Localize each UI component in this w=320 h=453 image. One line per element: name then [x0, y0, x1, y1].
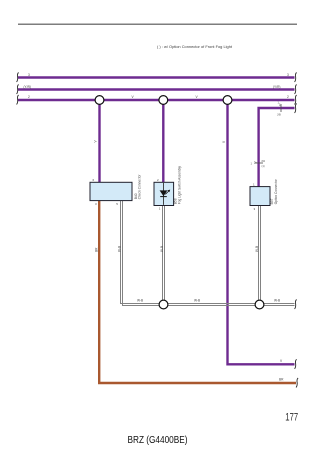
svg-text:( ) : w/ Option Connector of F: ( ) : w/ Option Connector of Front Fog L… [157, 45, 233, 49]
continuation break left of bus 3 [17, 95, 19, 105]
continuation break right of bus 4 [295, 104, 297, 114]
svg-text:Fog Light Switch Assembly: Fog Light Switch Assembly [177, 166, 181, 204]
svg-text:i84: i84 [262, 159, 266, 163]
svg-text:Check Connector: Check Connector [138, 174, 142, 200]
wire: violet long drop with bottom run (to right edge) [228, 104, 295, 364]
svg-text:3: 3 [254, 207, 256, 211]
arrow indicator of diode [165, 191, 169, 194]
wire: white W-B from B40 pin5 down and across to right [121, 201, 295, 304]
svg-text:BR: BR [94, 247, 98, 252]
switch B58 box [154, 182, 174, 205]
junction node on bus 3 at long drop [223, 96, 232, 105]
internal lead through B58 [163, 183, 165, 205]
continuation break right of brown run [296, 378, 298, 388]
option connector box [250, 187, 270, 206]
svg-text:2: 2 [157, 178, 159, 182]
junction node on ground bus at B58 drop [159, 300, 168, 309]
wire: bus 2 horizontal (violet) [18, 88, 295, 90]
svg-text:Option Connector: Option Connector [274, 178, 278, 204]
svg-text:W-B: W-B [160, 246, 164, 252]
svg-text:(Y/R): (Y/R) [273, 85, 280, 89]
wire: violet drop to connector B40 [98, 104, 100, 182]
svg-text:W-B: W-B [194, 299, 200, 303]
svg-text:5: 5 [116, 202, 118, 206]
continuation break right of bus 3 [295, 95, 297, 105]
header rule [18, 23, 297, 25]
wire: white W-B drop from B58 [162, 206, 164, 305]
continuation break right of bus 1 [295, 73, 297, 83]
svg-text:W-B: W-B [255, 246, 259, 252]
svg-text:BR: BR [279, 378, 284, 382]
svg-text:3: 3 [28, 73, 30, 77]
svg-text:1: 1 [253, 183, 255, 187]
wire: bus 4 stub horizontal (violet) with corner down [259, 108, 295, 187]
wire: violet drop to switch B58 [162, 104, 164, 182]
svg-text:(Y/R): (Y/R) [24, 85, 31, 89]
continuation break right of bus 2 [295, 85, 297, 95]
continuation break right of bottom violet run [295, 359, 297, 369]
svg-text:V: V [94, 140, 98, 143]
svg-text:V: V [132, 95, 135, 99]
wire: bus 1 horizontal (violet) [18, 76, 295, 78]
svg-text:1: 1 [159, 207, 161, 211]
diode D inside B58 [160, 190, 168, 196]
svg-text:6: 6 [93, 178, 95, 182]
svg-text:V: V [222, 140, 226, 143]
svg-text:177: 177 [285, 412, 298, 424]
svg-text:2: 2 [28, 95, 30, 99]
continuation break left of bus 1 [17, 73, 19, 83]
continuation break left of bus 2 [17, 85, 19, 95]
junction node on ground bus at option drop [255, 300, 264, 309]
svg-text:3: 3 [287, 73, 289, 77]
wire: brown B40 to bottom right edge [99, 201, 296, 383]
svg-text:W-B: W-B [274, 299, 280, 303]
inline connector marker on bus 4 [280, 104, 282, 112]
svg-text:J/B: J/B [277, 113, 281, 117]
svg-text:2: 2 [287, 95, 289, 99]
svg-text:V: V [280, 359, 283, 363]
svg-text:1: 1 [251, 161, 253, 165]
junction node on bus 3 at B58 drop [159, 96, 168, 105]
connector B40 box [90, 182, 132, 200]
junction node on bus 3 at B40 drop [95, 96, 104, 105]
wire: white W-B drop from option connector [258, 206, 260, 305]
continuation break right of ground bus [295, 300, 297, 310]
wire: bus 3 horizontal (violet) [18, 99, 295, 101]
svg-text:3: 3 [95, 202, 97, 206]
svg-text:W-B: W-B [137, 299, 143, 303]
svg-text:V: V [196, 95, 199, 99]
svg-text:W-B: W-B [118, 246, 122, 252]
svg-text:(1): (1) [262, 164, 265, 168]
inline connector marker on option drop [255, 162, 264, 164]
svg-text:BRZ (G4400BE): BRZ (G4400BE) [128, 435, 188, 446]
